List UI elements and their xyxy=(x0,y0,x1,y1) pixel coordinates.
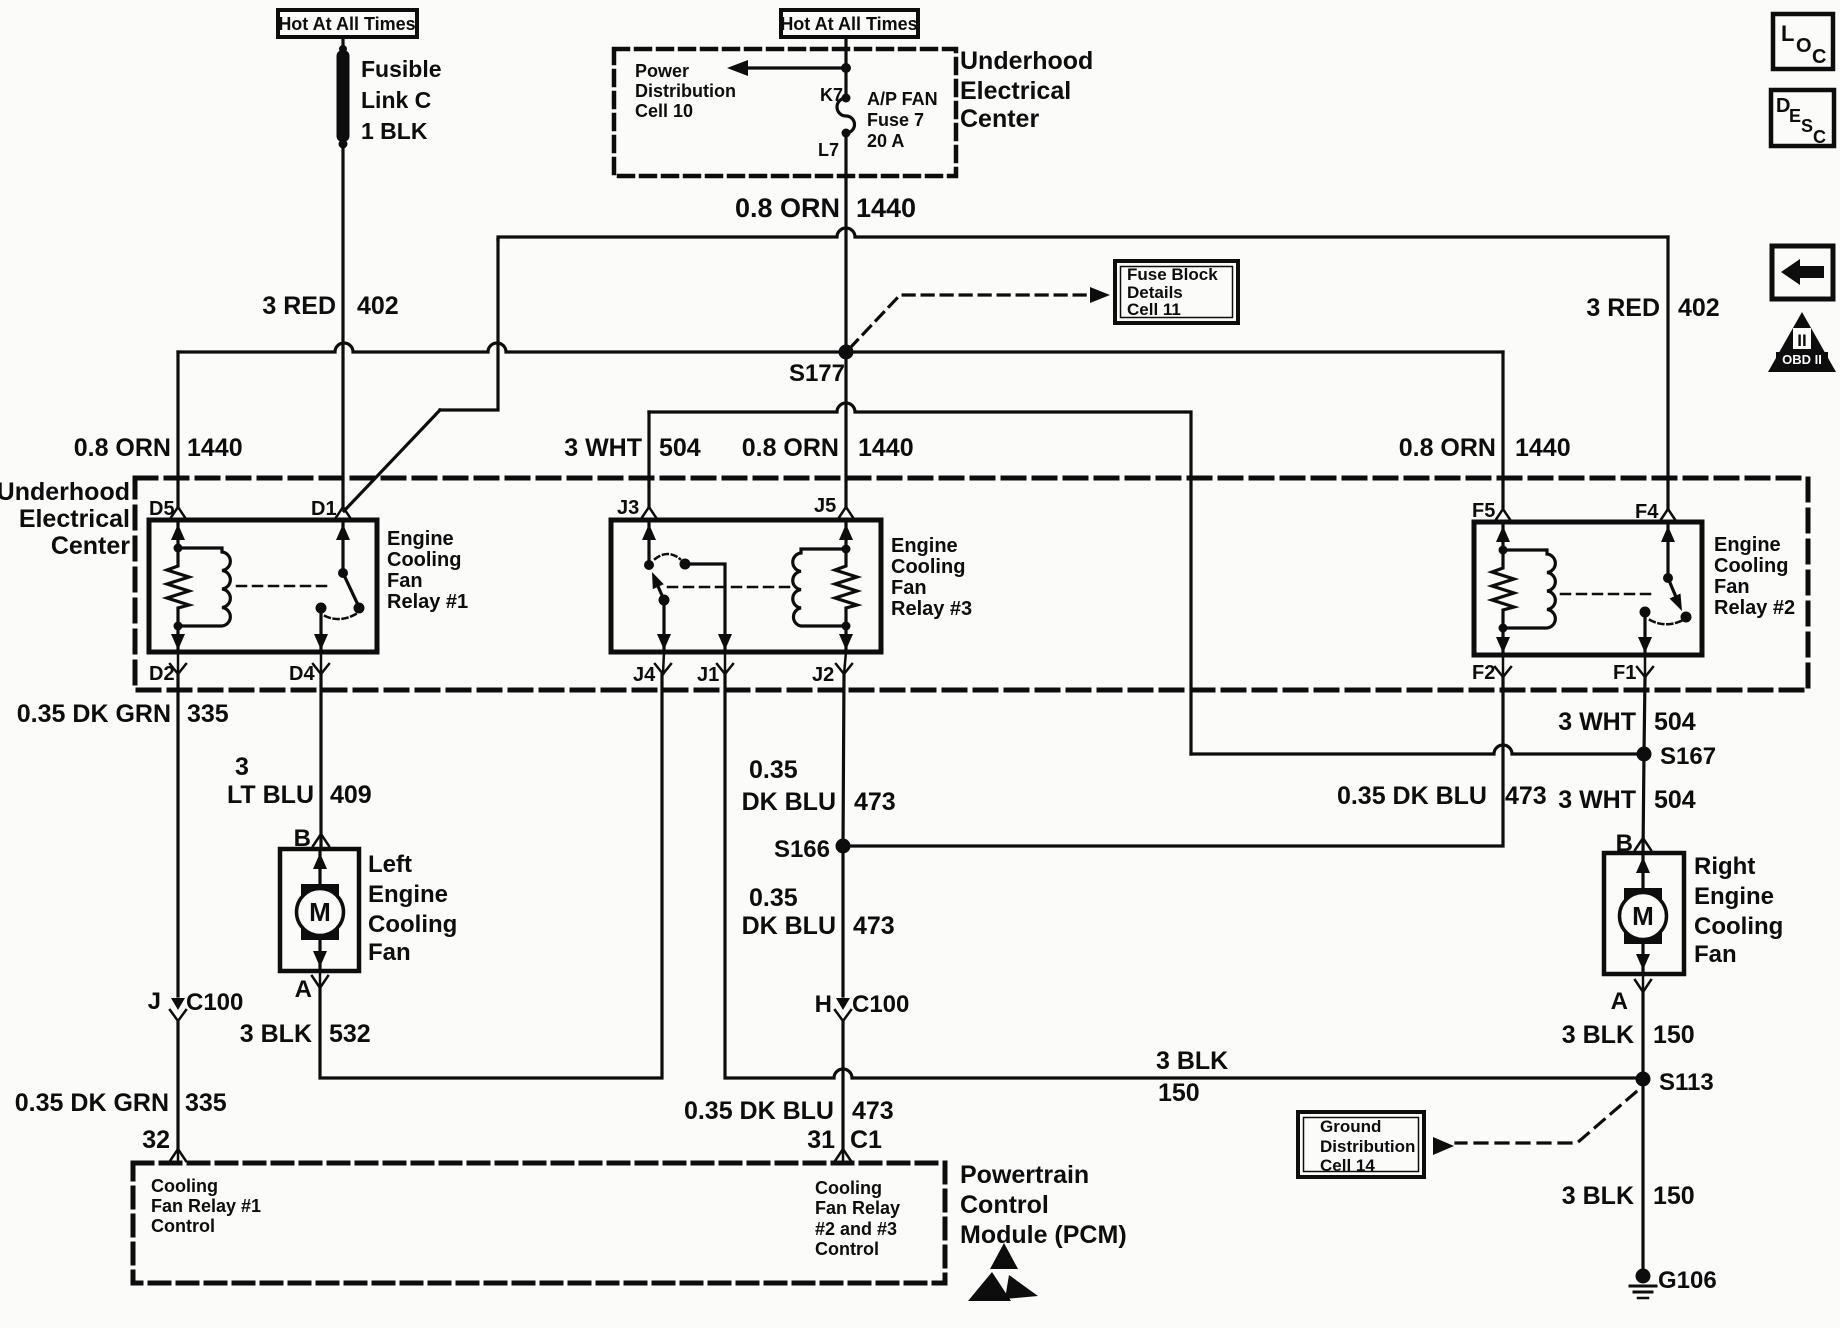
svg-text:A: A xyxy=(295,976,312,1003)
relay K3 wire contact to J1 arrow xyxy=(685,564,732,651)
svg-text:Cooling: Cooling xyxy=(891,556,965,578)
svg-text:Module (PCM): Module (PCM) xyxy=(960,1221,1127,1249)
svg-text:Engine: Engine xyxy=(891,535,958,557)
svg-text:Fan Relay: Fan Relay xyxy=(815,1198,900,1218)
svg-text:0.35 DK GRN: 0.35 DK GRN xyxy=(15,1089,169,1117)
wire 3 LT BLU 409 (D4 down to left fan B) xyxy=(319,674,322,849)
relay K3 coil xyxy=(793,545,851,631)
svg-text:Hot At All Times: Hot At All Times xyxy=(278,14,415,34)
pin J1 xyxy=(697,652,733,686)
svg-text:C: C xyxy=(1812,46,1826,68)
arrow to power distribution xyxy=(727,60,851,76)
svg-text:3 BLK: 3 BLK xyxy=(240,1020,312,1048)
label Cooling Fan Relay #2 and #3 Control xyxy=(815,1178,900,1259)
svg-text:F5: F5 xyxy=(1472,500,1495,522)
label 0.8 ORN 1440 xyxy=(735,193,916,223)
svg-text:Cell 10: Cell 10 xyxy=(635,101,693,121)
svg-text:0.35 DK BLU: 0.35 DK BLU xyxy=(1337,782,1487,810)
underhood electrical center dashed box (top) xyxy=(614,49,956,176)
svg-text:3 BLK: 3 BLK xyxy=(1562,1021,1634,1049)
svg-text:Power: Power xyxy=(635,61,689,81)
label Underhood Electrical Center (top) xyxy=(960,47,1093,133)
relay K2 resistor xyxy=(1492,546,1514,633)
icon LOC box xyxy=(1773,14,1833,69)
relay K2 coil input arrow xyxy=(1496,522,1510,550)
svg-text:0.8 ORN: 0.8 ORN xyxy=(74,434,171,462)
svg-text:Center: Center xyxy=(960,105,1039,133)
label 0.8 ORN 1440 (right) xyxy=(1399,434,1571,462)
label Power Distribution Cell 10 xyxy=(635,61,736,121)
node S167 xyxy=(1637,743,1717,770)
pin F1 xyxy=(1613,655,1653,684)
relay K1 actuator dashed link xyxy=(237,585,333,588)
svg-text:0.8 ORN: 0.8 ORN xyxy=(1399,434,1496,462)
svg-text:409: 409 xyxy=(330,781,372,809)
underhood electrical center dashed box (main) xyxy=(135,478,1808,690)
svg-text:C100: C100 xyxy=(852,991,909,1018)
relay K2 actuator dashed link xyxy=(1561,593,1656,596)
relay K3 switch blade with arrow xyxy=(644,560,670,606)
svg-text:C: C xyxy=(1813,127,1826,147)
label 3 RED 402 (right) xyxy=(1586,294,1719,322)
wire 0.35 DK GRN 335 (C100 to PCM pin 32) xyxy=(176,1021,179,1150)
svg-text:D4: D4 xyxy=(289,663,315,685)
svg-text:0.8 ORN: 0.8 ORN xyxy=(742,434,839,462)
wire bus y=412 (J3 to S167 link) hop at 846, corner x=1191 xyxy=(649,403,1191,754)
label 0.8 ORN 1440 (center) xyxy=(742,434,914,462)
svg-text:1440: 1440 xyxy=(1515,434,1571,462)
relay K1 box (Engine Cooling Fan Relay #1) xyxy=(149,520,377,652)
svg-text:3 WHT: 3 WHT xyxy=(564,434,642,462)
svg-text:C100: C100 xyxy=(186,989,243,1016)
svg-text:S166: S166 xyxy=(774,836,830,863)
connector C100 pin J xyxy=(148,988,244,1021)
svg-text:20 A: 20 A xyxy=(867,131,904,151)
svg-text:J2: J2 xyxy=(812,664,834,686)
hot at all times box 2 xyxy=(780,10,918,37)
svg-text:#2 and #3: #2 and #3 xyxy=(815,1219,897,1239)
svg-text:3 BLK: 3 BLK xyxy=(1156,1047,1228,1075)
wire 0.8 ORN 1440 right drop (S177 bus to F5) xyxy=(1501,352,1504,507)
svg-text:II: II xyxy=(1797,331,1806,350)
svg-text:Engine: Engine xyxy=(1694,883,1774,910)
svg-text:335: 335 xyxy=(187,700,229,728)
relay K2 coil xyxy=(1503,550,1555,628)
PCM pin 31 C1 xyxy=(807,1126,882,1163)
svg-text:Powertrain: Powertrain xyxy=(960,1161,1089,1189)
hot at all times box 1 xyxy=(278,10,417,37)
svg-text:0.35: 0.35 xyxy=(749,756,798,784)
svg-text:1440: 1440 xyxy=(858,434,914,462)
wire bus y=352 (S177 distribution) with hops at 344 and 497 xyxy=(178,343,1503,352)
right engine cooling fan box xyxy=(1604,853,1684,974)
svg-text:J: J xyxy=(148,988,161,1015)
svg-text:473: 473 xyxy=(854,788,896,816)
wire 3 WHT 504 (S167 down to right fan B) xyxy=(1643,754,1644,853)
wire 3 WHT 504 (F1 down to S167) xyxy=(1644,677,1645,754)
svg-text:335: 335 xyxy=(185,1089,227,1117)
label 0.35 DK BLU 473 (lower) xyxy=(684,1097,894,1125)
svg-text:Distribution: Distribution xyxy=(635,81,736,101)
node S113 xyxy=(1636,1069,1714,1096)
dashed reference link to ground distribution xyxy=(1456,1092,1636,1143)
label 0.35 DK GRN 335 xyxy=(17,700,229,728)
svg-text:1440: 1440 xyxy=(187,434,243,462)
pin D1 xyxy=(311,498,351,520)
svg-text:F4: F4 xyxy=(1635,501,1659,523)
wire 0.8 ORN 1440 center drop (S177 to J5) xyxy=(844,352,847,508)
fuse block details box xyxy=(1115,261,1238,323)
relay K2 coil output arrow to F2 xyxy=(1496,628,1510,654)
svg-text:473: 473 xyxy=(852,1097,894,1125)
svg-text:G106: G106 xyxy=(1658,1267,1717,1294)
pin D5 xyxy=(149,498,186,520)
svg-text:Cell 11: Cell 11 xyxy=(1127,300,1181,319)
wire vertical x=501 down to jog xyxy=(440,240,498,410)
label: Fusible Link C 1 BLK xyxy=(361,56,442,144)
relay K1 coil output arrow to D2 xyxy=(171,626,185,651)
label A/P FAN Fuse 7 20 A xyxy=(867,89,938,151)
label Underhood Electrical Center (left) xyxy=(0,478,130,560)
svg-text:Fan: Fan xyxy=(1694,941,1737,968)
svg-text:A: A xyxy=(1611,988,1628,1015)
relay K3 coil output arrow to J2 xyxy=(839,626,853,651)
wire 3 BLK 150 (right fan A to S113) xyxy=(1641,992,1644,1079)
svg-text:J1: J1 xyxy=(697,664,719,686)
ground distribution box with arrow xyxy=(1298,1112,1454,1177)
svg-text:Relay #2: Relay #2 xyxy=(1714,597,1795,619)
svg-text:3 WHT: 3 WHT xyxy=(1558,786,1636,814)
relay K1 switch output arrow to D4 xyxy=(314,608,328,651)
svg-text:Control: Control xyxy=(151,1216,215,1236)
svg-text:3 RED: 3 RED xyxy=(262,292,336,320)
svg-text:1440: 1440 xyxy=(856,193,916,223)
svg-text:150: 150 xyxy=(1653,1021,1695,1049)
svg-text:D2: D2 xyxy=(149,663,175,685)
wire 0.35 DK GRN 335 (D2 down to C100) xyxy=(176,674,179,996)
svg-text:Link C: Link C xyxy=(361,87,431,113)
svg-text:Distribution: Distribution xyxy=(1320,1137,1415,1156)
connector C100 pin H xyxy=(815,991,910,1021)
relay K3 actuator dashed link xyxy=(668,586,790,589)
relay K1 coil input arrow xyxy=(171,520,185,548)
svg-text:Fusible: Fusible xyxy=(361,56,442,82)
wire 3 WHT 504 drop to J3 xyxy=(647,412,650,507)
wire 3 BLK 150 (J1 down and right to S113) hop over J2 wire xyxy=(725,674,1643,1078)
svg-text:H: H xyxy=(815,991,832,1018)
svg-text:150: 150 xyxy=(1158,1079,1200,1107)
relay K2 box (Engine Cooling Fan Relay #2) xyxy=(1474,522,1702,655)
svg-text:0.35: 0.35 xyxy=(749,884,798,912)
svg-text:Fuse Block: Fuse Block xyxy=(1127,265,1218,284)
relay K2 switch blade with arrow xyxy=(1663,573,1692,623)
relay K3 box (Engine Cooling Fan Relay #3) xyxy=(611,520,881,652)
svg-text:0.35 DK GRN: 0.35 DK GRN xyxy=(17,700,171,728)
svg-text:Cooling: Cooling xyxy=(151,1176,218,1196)
wire 3 RED 402 (fusible link to D1) xyxy=(341,144,344,508)
wire top bus y=237 (D1 to F4 feed) with hop over ORN wire xyxy=(498,228,1668,240)
svg-text:Hot At All Times: Hot At All Times xyxy=(780,14,917,34)
svg-text:0.8 ORN: 0.8 ORN xyxy=(735,193,840,223)
label 3 RED 402 xyxy=(262,292,398,320)
label Left Engine Cooling Fan xyxy=(368,851,457,966)
svg-text:Fuse 7: Fuse 7 xyxy=(867,110,924,130)
svg-text:S167: S167 xyxy=(1660,743,1716,770)
label 3 BLK 150 (two lines) xyxy=(1156,1047,1228,1107)
svg-text:Electrical: Electrical xyxy=(960,77,1071,105)
fuse A/P FAN Fuse 7 20A xyxy=(837,94,855,138)
svg-text:150: 150 xyxy=(1653,1182,1695,1210)
svg-text:K7: K7 xyxy=(820,85,843,105)
svg-text:Underhood: Underhood xyxy=(960,47,1093,75)
svg-text:LT BLU: LT BLU xyxy=(227,781,314,809)
svg-text:Right: Right xyxy=(1694,853,1755,880)
svg-text:DK BLU: DK BLU xyxy=(742,788,836,816)
svg-text:Ground: Ground xyxy=(1320,1117,1381,1136)
wire 3 BLK 532 (left fan A to J4) xyxy=(320,674,662,1078)
svg-text:1 BLK: 1 BLK xyxy=(361,118,428,144)
svg-text:504: 504 xyxy=(1654,708,1696,736)
svg-text:3 WHT: 3 WHT xyxy=(1558,708,1636,736)
label Right Engine Cooling Fan xyxy=(1694,853,1783,968)
svg-text:31: 31 xyxy=(807,1126,835,1154)
wire 0.35 DK BLU 473 (S166 down to C100 H) xyxy=(841,846,844,996)
svg-text:532: 532 xyxy=(329,1020,371,1048)
relay K3 blade output arrow to J4 xyxy=(657,600,671,651)
svg-text:E: E xyxy=(1789,106,1801,126)
node S177 xyxy=(789,345,854,388)
svg-text:402: 402 xyxy=(1678,294,1720,322)
svg-text:Left: Left xyxy=(368,851,412,878)
dashed reference arrow to fuse block details xyxy=(850,287,1110,348)
ground G106 xyxy=(1630,1267,1717,1298)
svg-text:A/P FAN: A/P FAN xyxy=(867,89,938,109)
svg-text:Fan: Fan xyxy=(368,939,411,966)
relay K2 switch input arrow xyxy=(1661,522,1675,578)
pin F5 xyxy=(1472,500,1511,522)
svg-text:L: L xyxy=(1781,21,1794,46)
wire from box2 into UEC xyxy=(844,37,847,68)
svg-text:402: 402 xyxy=(357,292,399,320)
pin B (right fan) xyxy=(1616,830,1651,857)
PCM pin 32 xyxy=(142,1126,186,1163)
label 0.35 DK GRN 335 (lower) xyxy=(15,1089,227,1117)
svg-text:F2: F2 xyxy=(1472,662,1495,684)
svg-text:Cooling: Cooling xyxy=(368,911,457,938)
svg-text:Fan Relay #1: Fan Relay #1 xyxy=(151,1196,261,1216)
label 3 WHT 504 (lower) xyxy=(1558,786,1696,814)
label 3 WHT 504 xyxy=(564,434,701,462)
relay K1 coil xyxy=(178,548,230,626)
svg-text:504: 504 xyxy=(659,434,701,462)
svg-text:S113: S113 xyxy=(1659,1069,1714,1096)
svg-text:504: 504 xyxy=(1654,786,1696,814)
svg-text:Cooling: Cooling xyxy=(1694,913,1783,940)
left fan motor M xyxy=(297,849,344,968)
svg-text:Engine: Engine xyxy=(368,881,448,908)
icon DESC box xyxy=(1771,90,1834,147)
svg-text:3 RED: 3 RED xyxy=(1586,294,1660,322)
wire from arrow node to fuse xyxy=(844,68,847,98)
pin J2 xyxy=(812,652,852,686)
svg-text:Engine: Engine xyxy=(1714,534,1781,556)
svg-text:D5: D5 xyxy=(149,498,175,520)
svg-text:Cooling: Cooling xyxy=(387,549,461,571)
pin A (left fan) xyxy=(295,971,328,1003)
pin J5 xyxy=(814,495,854,519)
svg-text:Fan: Fan xyxy=(1714,576,1750,598)
svg-text:J3: J3 xyxy=(617,497,639,519)
label 3 BLK 150 (right upper) xyxy=(1562,1021,1695,1049)
relay K3 switch dashed travel arc + contact xyxy=(655,554,691,570)
label Cooling Fan Relay #1 Control xyxy=(151,1176,261,1236)
wire 0.35 DK BLU 473 (C100 to PCM pin 31) xyxy=(841,1021,844,1150)
wire 3 BLK 150 (S113 down to G106) xyxy=(1641,1079,1644,1276)
left engine cooling fan box xyxy=(280,849,359,971)
svg-text:Engine: Engine xyxy=(387,528,454,550)
relay K1 switch contact + dashed travel arc xyxy=(316,603,357,620)
relay K2 switch output arrow to F1 xyxy=(1638,612,1652,654)
wire 0.35 DK BLU 473 (J2 down to S166) xyxy=(843,674,844,846)
label 0.35 DK BLU 473 (middle) xyxy=(742,884,895,940)
svg-text:0.35 DK BLU: 0.35 DK BLU xyxy=(684,1097,834,1125)
svg-text:L7: L7 xyxy=(818,140,839,160)
svg-text:OBD II: OBD II xyxy=(1782,352,1822,367)
pin D2 xyxy=(149,652,186,685)
svg-text:Fan: Fan xyxy=(387,570,423,592)
relay K1 resistor xyxy=(167,544,189,631)
svg-text:J4: J4 xyxy=(633,664,656,686)
pin F4 xyxy=(1635,501,1676,523)
label 3 WHT 504 (upper) xyxy=(1558,708,1696,736)
svg-text:J5: J5 xyxy=(814,495,836,517)
relay K3 coil input arrow xyxy=(839,520,853,549)
wire diagonal to D1 xyxy=(344,410,440,511)
svg-text:O: O xyxy=(1796,35,1812,57)
svg-text:3 BLK: 3 BLK xyxy=(1562,1182,1634,1210)
fusible link F (wire from box1) xyxy=(341,37,344,52)
svg-text:Fan: Fan xyxy=(891,577,927,599)
svg-text:Relay #1: Relay #1 xyxy=(387,591,468,613)
svg-text:Electrical: Electrical xyxy=(19,505,130,533)
label 0.8 ORN 1440 (left) xyxy=(74,434,243,462)
relay K1 switch blade xyxy=(338,568,365,614)
relay K3 resistor xyxy=(835,549,857,626)
svg-text:Relay #3: Relay #3 xyxy=(891,598,972,620)
wire S167 link (from y=412 bus corner) hop over F2 wire xyxy=(1191,745,1644,754)
svg-text:Center: Center xyxy=(51,532,130,560)
svg-text:Control: Control xyxy=(960,1191,1049,1219)
powertrain control module dashed box xyxy=(133,1163,945,1283)
svg-text:3: 3 xyxy=(235,753,249,781)
relay K1 switch input arrow xyxy=(336,520,350,573)
pin A (right fan) xyxy=(1611,974,1651,1015)
label Engine Cooling Fan Relay #1 xyxy=(387,528,468,613)
ESD sensitive symbol xyxy=(968,1243,1038,1301)
wire 0.8 ORN 1440 left drop (S177 bus to D5) xyxy=(176,352,179,507)
fusible link bar xyxy=(337,45,350,149)
pin J3 xyxy=(617,497,657,519)
svg-text:Cell 14: Cell 14 xyxy=(1320,1156,1375,1175)
label 0.35 DK BLU 473 (upper) xyxy=(742,756,896,816)
label 0.35 DK BLU 473 (F2 branch) xyxy=(1337,782,1547,810)
svg-text:32: 32 xyxy=(142,1126,170,1154)
label Powertrain Control Module (PCM) xyxy=(960,1161,1127,1249)
svg-text:F1: F1 xyxy=(1613,662,1636,684)
relay K3 switch input arrow xyxy=(642,520,656,565)
svg-text:473: 473 xyxy=(853,912,895,940)
svg-text:M: M xyxy=(309,897,331,927)
pin J4 xyxy=(633,652,671,686)
node S166 xyxy=(774,836,851,863)
label 3 BLK 150 (right lower) xyxy=(1562,1182,1695,1210)
svg-text:473: 473 xyxy=(1505,782,1547,810)
svg-text:Underhood: Underhood xyxy=(0,478,130,506)
svg-text:DK BLU: DK BLU xyxy=(742,912,836,940)
label 3 LT BLU 409 xyxy=(227,753,372,809)
svg-text:Cooling: Cooling xyxy=(815,1178,882,1198)
wire right 3 RED 402 (bus down to F4) xyxy=(1666,237,1669,509)
pin B (left fan) xyxy=(294,825,329,852)
svg-text:S177: S177 xyxy=(789,360,845,387)
svg-text:D1: D1 xyxy=(311,498,337,520)
label Engine Cooling Fan Relay #3 xyxy=(891,535,972,620)
pin D4 xyxy=(289,652,329,685)
icon back arrow box xyxy=(1772,246,1833,299)
label 3 BLK 532 xyxy=(240,1020,371,1048)
right fan motor M xyxy=(1620,853,1667,971)
wire 0.8 ORN 1440 (fuse L7 down to S177) xyxy=(844,133,847,352)
relay K2 switch contact + dashed travel arc xyxy=(1640,607,1682,625)
pin F2 xyxy=(1472,655,1511,684)
icon OBD II triangle xyxy=(1768,312,1836,372)
label Engine Cooling Fan Relay #2 xyxy=(1714,534,1795,619)
svg-text:Cooling: Cooling xyxy=(1714,555,1788,577)
wire S166 to F2 xyxy=(843,677,1503,846)
svg-text:Control: Control xyxy=(815,1239,879,1259)
svg-text:S: S xyxy=(1801,116,1813,136)
svg-text:M: M xyxy=(1632,901,1654,931)
svg-text:C1: C1 xyxy=(850,1126,882,1154)
